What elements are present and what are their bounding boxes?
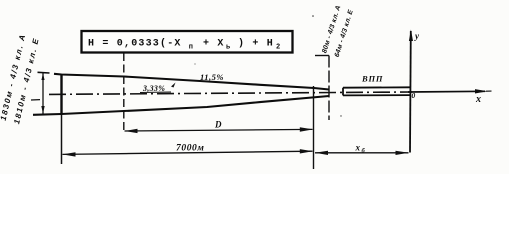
svg-text:п: п [189, 44, 193, 52]
left height dimension line [42, 73, 44, 114]
svg-text:2: 2 [276, 44, 280, 52]
svg-text:D: D [214, 120, 222, 130]
3,33% underline [140, 91, 171, 94]
svg-text:x: x [475, 94, 481, 105]
7000м right arrowhead [300, 149, 313, 153]
svg-text:ВПП: ВПП [361, 74, 383, 84]
svg-text:) + H: ) + H [238, 38, 274, 50]
svg-text:7000м: 7000м [176, 144, 205, 154]
x axis solid segment [408, 90, 485, 93]
dashed extension line from box to D dimension [123, 53, 125, 133]
x axis tail [486, 90, 492, 92]
svg-text:+ X: + X [203, 39, 225, 50]
formula box [82, 31, 293, 53]
xб left arrowhead [315, 151, 328, 155]
left dim top arrow [41, 74, 44, 81]
leader tick for left label 2 [31, 99, 40, 101]
wedge left edge [60, 74, 62, 115]
xб dimension line [315, 152, 409, 154]
tick at top of threshold line [315, 55, 329, 57]
y axis [409, 31, 412, 153]
extension line below wedge left edge [61, 115, 63, 165]
svg-text:11,5%: 11,5% [200, 72, 224, 82]
svg-text:~: ~ [163, 29, 167, 36]
scan speckle dots [312, 15, 314, 17]
x axis arrowhead [475, 89, 488, 93]
threshold dashed line x=329 [328, 56, 330, 121]
svg-text:H = 0,0333(-X: H = 0,0333(-X [88, 38, 182, 50]
svg-text:x: x [355, 143, 361, 153]
wedge top line [54, 74, 329, 90]
runway ВПП symbol [343, 87, 410, 95]
7000м left arrowhead [62, 152, 75, 156]
y axis arrowhead [409, 30, 413, 42]
3,33% tiny arrow [171, 83, 176, 88]
left dim bottom arrow [41, 106, 44, 114]
wedge bottom line [33, 96, 329, 115]
formula text H = 0,0333(-Xп + Xь) + H2 [88, 29, 280, 52]
D right arrowhead [300, 127, 313, 131]
D dimension line [125, 129, 313, 131]
D left arrowhead [124, 129, 137, 133]
svg-text:ь: ь [226, 44, 230, 52]
xб right arrowhead [396, 151, 409, 155]
svg-text:0: 0 [412, 91, 416, 100]
7000м dimension line [63, 151, 313, 154]
right extension line x=314 [313, 86, 315, 169]
top line left tick [38, 71, 50, 74]
centerline dash-dot [49, 92, 412, 94]
